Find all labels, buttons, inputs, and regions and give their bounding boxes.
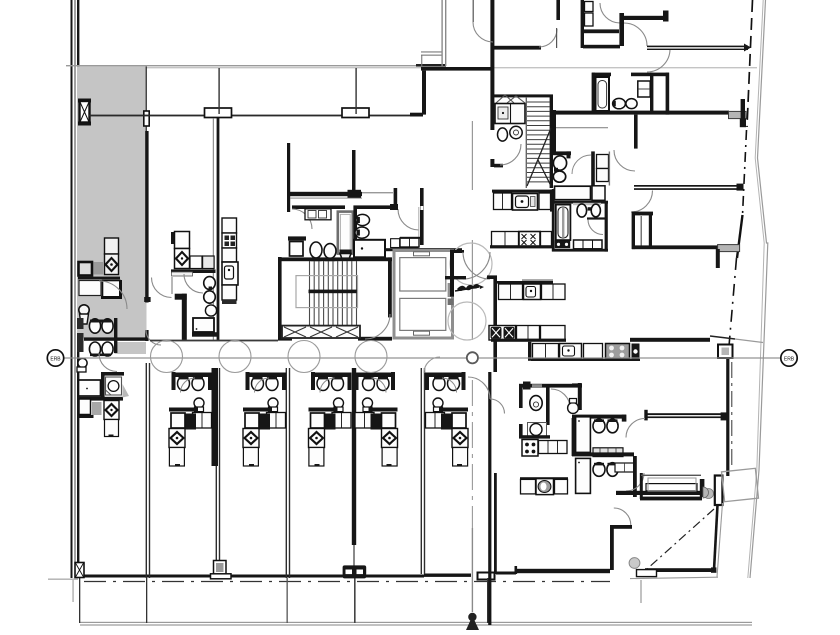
unitA dark line y416	[78, 415, 94, 418]
wall connector to terrace y114	[410, 113, 423, 117]
cabinet below closet wall	[290, 242, 304, 257]
wall upper right room south y340	[630, 338, 710, 342]
wall window band y187 east room	[634, 185, 740, 187]
bathtub trap black	[555, 241, 570, 249]
door arc mid bath	[588, 220, 603, 235]
wall blob at left end	[523, 382, 531, 390]
kitchen stove box mid apartment	[522, 440, 538, 457]
door arc gray unit interior	[99, 281, 127, 309]
wall stub x580	[578, 383, 582, 410]
wall partition x636 below y115	[634, 115, 638, 149]
wall right boundary gray outer second	[748, 0, 764, 578]
bidet core bath	[355, 227, 369, 238]
wall end block x702	[700, 479, 705, 497]
wall bottom room x612	[610, 525, 614, 570]
kitchen row3 sink	[524, 284, 541, 300]
wire dash-dot beside right wall	[731, 362, 733, 470]
fixture north unit2 diamond unit	[175, 249, 190, 269]
wall bath3 east x635	[633, 456, 637, 497]
door arc stair hall east	[365, 314, 390, 339]
fixture north unit3 sink box	[222, 262, 238, 285]
wire terrace post x219	[218, 68, 219, 114]
stair mid landing rail black	[309, 290, 358, 294]
stair2 diagonal cut line	[527, 128, 551, 186]
gray shelf above toilets	[573, 203, 601, 205]
door arc circle entry unit C	[288, 341, 320, 373]
kitchen row5 sink	[560, 344, 582, 359]
SECTION: right apartment lower	[519, 336, 763, 603]
elevator door slot top	[414, 252, 430, 256]
wall stair hall north	[278, 257, 392, 261]
door arc bath3	[626, 473, 644, 491]
door leaf line unit2 bath	[171, 277, 172, 294]
wall mid bath north y202	[552, 201, 608, 204]
toilet and bidet pair upper row	[89, 319, 100, 333]
mid bath counter white box right	[592, 186, 605, 201]
wall long vertical x492 lower piece	[490, 159, 494, 167]
cluster unit A2	[169, 372, 212, 466]
sink counter core bath	[305, 209, 331, 220]
wall west of upper-left apartment x424	[422, 71, 426, 115]
wall bedroom band y193 left part	[290, 192, 362, 196]
wall black square x724	[721, 412, 729, 420]
wall closet east thin x609	[609, 152, 610, 186]
door arc south corridor elbow 1	[468, 377, 490, 399]
wire bottom outer gray double line	[80, 622, 752, 623]
closet inner partition line	[641, 216, 642, 246]
wall middle room divider x288 upper	[287, 143, 290, 212]
bidet circle below laundry	[510, 126, 522, 138]
wire right dash-dot mid	[743, 130, 747, 215]
wall corridor north thin x150-278	[150, 340, 278, 342]
wire terrace post x356	[355, 68, 356, 114]
wire thin ledger below band	[290, 198, 362, 199]
wire mullion line below x487	[487, 578, 489, 623]
ERB circle right	[781, 350, 797, 366]
counter gray block right of toilets	[115, 342, 147, 354]
stair treads vertical lines	[310, 261, 357, 325]
washing machine right	[354, 240, 385, 257]
fixture small circle basin	[568, 403, 579, 414]
wall riser x622	[619, 13, 624, 46]
wall window band y415 east	[646, 413, 722, 415]
fixture north unit3 kitchen box5	[222, 285, 237, 300]
door arc gray unit to corridor	[146, 330, 161, 345]
svg-text:ERB: ERB	[784, 356, 795, 362]
wall gray block y248 right	[718, 245, 740, 252]
laundry closet zigzag doors	[496, 95, 514, 103]
kitchen row1 right box	[539, 193, 551, 210]
bidet unit2 bath	[204, 291, 216, 303]
wall hook end x666	[663, 11, 669, 22]
svg-text:ERB: ERB	[50, 356, 61, 362]
kitchen row2 right box	[541, 232, 552, 247]
counter kitchen L top line	[78, 277, 120, 280]
shower ensuite square	[528, 423, 547, 438]
wall closet west x582	[581, 0, 584, 48]
cluster unit B	[243, 372, 286, 466]
wall window band y47 right	[647, 46, 748, 48]
wall long vertical x492 upper	[490, 0, 494, 48]
wall ensuite east	[546, 387, 550, 425]
door leaf line x473 top	[473, 0, 474, 22]
SECTION: core stairs elevator	[278, 243, 492, 341]
wall top dark segment near x430	[416, 64, 446, 67]
wall closet top left y238	[288, 236, 306, 240]
wall vertical stub below gray block	[716, 249, 720, 268]
column box at x355	[342, 108, 369, 118]
wall parallel x495 lower	[494, 473, 497, 574]
node circle at corridor crossing	[467, 352, 478, 363]
wall top bedroom3 y18	[620, 16, 667, 20]
wall black hook below gray block	[740, 119, 746, 128]
door arc into east bedroom	[614, 150, 635, 171]
balcony south band	[640, 497, 702, 501]
kitchen row1 top band	[492, 190, 552, 193]
unitA kitchen tail box	[105, 420, 119, 437]
wire right dashes lower	[729, 258, 737, 352]
door arc south corridor elbow 2	[490, 399, 505, 414]
SECTION: north units	[89, 68, 424, 341]
wall unit divider x422 double	[421, 368, 422, 574]
toilet pair bath3	[593, 463, 605, 477]
toilet pair bath2	[593, 419, 605, 433]
fixture semicircle gray	[703, 487, 709, 498]
door arc circle entry unit B	[219, 341, 251, 373]
wall east wall of gray unit thick	[145, 131, 148, 303]
wall thick divider x214 upper part	[212, 368, 219, 466]
elevator car upper panel	[400, 258, 446, 291]
wire mullion line below x287	[287, 578, 288, 623]
kitchen row4 boxes	[489, 326, 516, 341]
wall hinge tick east wall	[144, 297, 150, 302]
wall bedroom west x554	[552, 110, 556, 155]
door arc bedroom3	[624, 23, 647, 46]
unitA south bath wall horizontal	[101, 372, 124, 376]
fixture north unit3 kitchen column box1	[222, 218, 237, 233]
bathtub mid bath	[556, 205, 571, 241]
kitchen row5 boxes	[533, 344, 559, 359]
balustrade hatched panel bottom	[282, 326, 360, 338]
laundry closet box	[495, 104, 525, 124]
door leaf bedroom1	[556, 28, 557, 48]
bench boxes mid bath	[574, 240, 603, 249]
wall bath3 west x573	[572, 418, 575, 456]
wire centerline vertical top segment	[472, 121, 473, 190]
wall ensuite west lower	[519, 424, 523, 438]
node section arrow bottom	[468, 613, 476, 621]
tree circle lower	[448, 302, 486, 340]
wall right of shower x355	[353, 205, 357, 254]
door arc circle entry unit D	[355, 341, 387, 373]
unitA cabinet small	[79, 399, 91, 415]
wall west inner thin line	[75, 0, 76, 578]
kitchen row3 boxes	[499, 284, 523, 300]
unitA cabinet boxes left	[79, 380, 101, 396]
wire gray stub left bottom	[48, 579, 78, 580]
column cross end y187	[737, 184, 744, 191]
wall long horizontal y112	[552, 111, 729, 115]
wall bath north y74 left	[592, 73, 611, 77]
washer unit2 bath	[193, 318, 214, 332]
wall box pier right mid	[718, 345, 733, 359]
kitchen row4 bottom band	[491, 339, 566, 342]
kitchen row1 boxes	[494, 193, 512, 210]
balcony walls top	[640, 473, 643, 499]
wall elevator east black	[450, 250, 454, 297]
ERB circle left	[47, 350, 63, 366]
wall bath north y207 right	[357, 205, 397, 209]
cabinet boxes left of elevator top	[400, 238, 419, 247]
counter north unit2	[171, 269, 216, 273]
wall closet east room top y213	[632, 212, 653, 216]
door arc bottom room	[614, 508, 631, 525]
wall right vertical x728 below corridor	[726, 358, 729, 476]
hatch piece on band	[532, 384, 542, 387]
kitchen row5 west wall	[528, 342, 531, 361]
door arc WC room	[398, 209, 419, 230]
wall terrace edge line y115	[89, 115, 420, 117]
wall right slant solid piece	[737, 215, 743, 258]
toilet mid bath	[577, 204, 587, 217]
toilet core bath	[356, 214, 370, 225]
fixture north unit3 dark base	[222, 300, 237, 304]
wall bottom window sill line	[78, 575, 424, 578]
wall bath2 north y416	[572, 415, 626, 419]
tree circle upper	[450, 243, 492, 285]
wire mullion line below x355	[354, 578, 356, 623]
wall bath west x593	[592, 73, 595, 112]
wall mid bath east x606	[605, 201, 608, 252]
shower stall core bath	[338, 212, 353, 254]
room gray shaded unit fill	[77, 67, 147, 339]
wall closet east vertical x651	[649, 215, 652, 246]
wall corridor west x495	[493, 278, 497, 372]
toilet and bidet pair lower row	[89, 342, 100, 356]
black box between fixtures	[588, 207, 591, 210]
fixture gray circle at wall end	[704, 489, 714, 499]
kitchen row3 hood gray	[522, 279, 553, 281]
door arc bath2	[626, 419, 645, 438]
wall closet mid shelf band	[583, 29, 619, 33]
shower tall box bath3	[576, 458, 591, 493]
toilet west wall	[79, 305, 89, 315]
wall west outer line 2	[77, 0, 79, 578]
kitchen row1 sink unit	[513, 194, 538, 211]
window slot on wall y487	[646, 484, 697, 491]
stair2 side wall east black	[550, 95, 553, 188]
wall unit2 bath L horizontal	[175, 294, 187, 300]
unitA south bath wall vertical	[101, 372, 105, 398]
shower unit2 bath	[205, 305, 216, 316]
wall gray block at right end	[729, 111, 747, 118]
wall horizontal y47 bedroom1	[492, 46, 541, 50]
wall bath east x667	[666, 73, 670, 115]
door arc bedroom1 entry	[539, 29, 557, 47]
door arc closet	[600, 3, 620, 23]
wall block north y96	[493, 94, 553, 97]
fixture dark blocks left wall at bath	[77, 318, 84, 329]
elevator car lower panel	[400, 298, 446, 330]
unitA kitchen diamond unit	[104, 401, 119, 420]
wall bath north y74 right	[631, 73, 669, 77]
wall above elevator	[384, 248, 462, 251]
wire centerline vertical bottom segment	[472, 528, 473, 612]
wall bath partition horizontal	[84, 337, 147, 340]
closet shelf boxes mid	[597, 155, 609, 169]
SECTION: mid right	[400, 94, 640, 372]
column box at x218	[205, 108, 232, 118]
column hatched box on west wall	[78, 99, 91, 103]
wire gray line beside radiator	[418, 207, 419, 238]
wire centerline vertical lower dash	[471, 380, 473, 528]
wire gray double vertical x442	[441, 0, 442, 66]
wire terrace gray bottom	[630, 577, 718, 578]
wall right vertical x742 top	[741, 99, 745, 127]
wire thin gray line along y68 to right	[146, 67, 757, 68]
wall right boundary gray outer polyline	[750, 0, 768, 578]
column cross at x354 y193	[348, 190, 362, 198]
wall north unit2 small stub	[171, 232, 174, 244]
elevator door slot bottom	[414, 331, 430, 335]
diagonal dash roof line	[647, 509, 714, 569]
wall south of bath3 y493	[616, 491, 702, 495]
SECTION: gray unit	[77, 67, 161, 373]
wall stub y218 mid bath	[587, 217, 608, 219]
wall east wall of gray unit at bath	[145, 330, 148, 341]
door arc bath left	[292, 209, 312, 229]
wall vertical x558 top	[556, 0, 560, 20]
shower tall box bath2	[576, 417, 591, 453]
wall west outer line 1	[71, 0, 73, 578]
door arc circle entry gray unit	[151, 341, 183, 373]
bidet top right bath	[626, 99, 637, 109]
wall lobby south piece left	[445, 276, 466, 279]
column corner box bottom left	[75, 563, 84, 578]
wire corridor centerline horizontal	[63, 357, 466, 358]
wall lobby south y252	[453, 250, 464, 253]
wall stair hall east	[388, 257, 392, 317]
counter boxes bath3 right	[615, 463, 634, 472]
fixture north unit2 fridge	[175, 232, 190, 249]
kitchen row2 boxes	[492, 232, 519, 247]
wall mid bath west x553	[552, 189, 555, 252]
counter white box right with black edge	[103, 281, 121, 298]
wall unit divider x288 double	[286, 368, 287, 578]
counter gray bath2	[593, 448, 623, 457]
wall x354 gray lower part	[353, 545, 355, 567]
column bracket black	[715, 476, 723, 506]
wall bottom thick segment right apartment	[517, 569, 610, 573]
wire mullion line below x79	[79, 578, 80, 623]
wall unit divider x147 double	[146, 363, 147, 578]
fixture north unit3 kitchen box3	[222, 248, 237, 262]
counter white box left	[79, 281, 101, 296]
toilet small below corridor line	[78, 358, 87, 367]
door arc ensuite	[551, 389, 570, 408]
wall tick at x515	[515, 566, 518, 574]
wall east wall of gray unit upper thin	[146, 67, 147, 133]
elevator shaft gray frame	[394, 251, 453, 339]
wall stub below hatched box	[80, 123, 90, 125]
counter black L bottom	[101, 280, 121, 298]
wall bottom jog box	[478, 573, 495, 580]
wall slant connector to boundary	[710, 336, 735, 339]
pedestal at x220 bottom	[214, 561, 227, 575]
stair2 side wall west gray	[526, 97, 527, 188]
wall closet east room west x633	[632, 212, 635, 250]
wall bath divider x652	[650, 73, 653, 112]
unitA counter band y398	[78, 397, 124, 401]
wall mid bath south y250	[552, 249, 608, 252]
wall middle room divider x354 upper	[352, 150, 356, 192]
door arc lobby left leaf	[463, 252, 490, 279]
bathtub top right	[596, 77, 610, 111]
SECTION: top right apartment	[410, 0, 751, 268]
kitchen row2 stove	[519, 232, 540, 248]
wall bottom segment right of jog	[496, 572, 516, 575]
unitA gray box	[92, 402, 102, 415]
white box on terrace wall	[637, 570, 657, 577]
toilet unit2 bath	[204, 277, 216, 290]
door arc unit2 bath	[184, 274, 203, 293]
kitchen row5 bottom line	[531, 359, 640, 361]
kitchen counter boxes beside stove	[539, 441, 568, 454]
kitchen row5 mid box	[584, 344, 603, 359]
wall terrace south y570	[645, 568, 713, 572]
wall stair hall south west stub	[278, 337, 292, 341]
kitchen row2 bottom band	[490, 245, 552, 248]
kitchen row5 stove gray	[606, 344, 630, 360]
door arc entry unit E half	[424, 357, 440, 373]
door arc hall to bedroom right	[647, 49, 670, 72]
wall small bath north y153	[552, 151, 571, 155]
wire shelf line bedroom	[556, 127, 608, 128]
wall shared plumbing wall x354	[352, 368, 356, 545]
door arc unit2 entry	[152, 278, 172, 298]
fixture north unit3 kitchen stove box	[222, 233, 237, 248]
toilet below laundry	[498, 128, 508, 141]
wall bath north y207 left	[292, 205, 345, 209]
unitA shower square	[106, 377, 122, 395]
bidet small bath	[553, 171, 565, 182]
wall unit2 bath vertical x184	[182, 294, 187, 341]
wire thin line beside divider	[213, 118, 214, 340]
drain box at x354 bottom	[343, 565, 367, 578]
wall vertical x551 kitchen	[550, 190, 553, 212]
elevator counterweight blocks	[448, 283, 454, 297]
door arc top wall	[473, 22, 493, 42]
toilet pair below core bath	[310, 242, 322, 258]
wall ensuite south y437	[519, 435, 550, 438]
door arc east bedroom	[631, 191, 653, 213]
fixture cabinet left dark box	[79, 262, 93, 276]
door arc small bath	[572, 155, 591, 174]
kitchen row3 right boxes	[542, 284, 566, 300]
wire bedroom line y193 right part	[362, 192, 393, 193]
wall long vertical x492 mid	[490, 48, 494, 130]
SECTION: corridor lines	[47, 340, 797, 373]
wire centerline vertical mid segment	[472, 240, 473, 340]
tilted door leaf gray	[722, 468, 759, 501]
wall stair hall south east stub	[358, 337, 392, 341]
wall unit2 bath south y334	[192, 332, 217, 337]
counter boxes right of diamond unit2	[190, 256, 202, 269]
column tick on east wall	[144, 111, 149, 126]
wall closet bottom y47	[583, 45, 620, 49]
wall end tick x646	[644, 410, 647, 421]
stair2 treads horizontal	[527, 102, 550, 182]
